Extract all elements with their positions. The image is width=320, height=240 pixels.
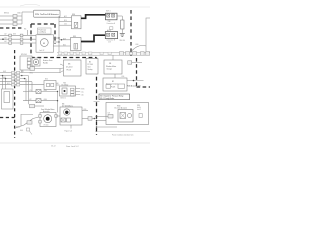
- svg-text:D21: D21: [21, 71, 24, 73]
- svg-text:Link 2: Link 2: [137, 109, 141, 111]
- connector pins group B: [12, 71, 20, 86]
- handle label: [43, 59, 53, 64]
- wire labels K35: [63, 37, 66, 46]
- rear actuator box: [106, 103, 149, 125]
- auth unit: [44, 79, 56, 90]
- inline connector A0: [128, 61, 132, 64]
- small tag box 2: [118, 84, 125, 88]
- svg-text:G11: G11: [7, 83, 10, 85]
- connector pins group A: [9, 34, 23, 44]
- wire crossing boundary 1: [130, 62, 142, 64]
- wire diagonal 2: [14, 125, 24, 129]
- motor M1: [36, 35, 54, 52]
- wire crossing boundary 2: [127, 80, 144, 82]
- wire labels group B: [3, 71, 24, 85]
- svg-text:K06: K06: [136, 44, 139, 46]
- wire group A: [0, 30, 36, 43]
- wire thick battery feed 2: [81, 35, 105, 41]
- wire labels K36: [64, 15, 67, 26]
- svg-text:SW 12: SW 12: [4, 13, 9, 15]
- dc motor unit M5: [60, 83, 76, 100]
- switch S2: [20, 54, 32, 70]
- svg-text:K09 4: K09 4: [106, 11, 110, 13]
- bus inline connectors: [59, 52, 112, 55]
- wire to K36 pins: [59, 18, 72, 26]
- wire M4 pin 2: [82, 118, 92, 120]
- junction: [133, 80, 135, 82]
- junctions riser: [57, 91, 58, 92]
- door lock actuator label box: [38, 28, 52, 34]
- harness boundary dashed left mid: [14, 50, 16, 85]
- wire stub: [21, 114, 33, 116]
- svg-text:Verkey: Verkey: [88, 69, 93, 71]
- svg-text:W30: W30: [30, 73, 33, 75]
- wire module B feed: [114, 74, 116, 78]
- part number box: [34, 10, 61, 17]
- svg-text:G09: G09: [3, 77, 6, 79]
- svg-text:Figure 5-6: Figure 5-6: [65, 131, 72, 133]
- module A window motor driver: [104, 60, 122, 74]
- connector X2: [105, 29, 117, 43]
- wire arc K06: [132, 45, 146, 50]
- svg-text:K096: K096: [81, 88, 85, 90]
- wire labels group A: [4, 33, 16, 43]
- junction: [61, 39, 63, 41]
- wire: [0, 12, 34, 24]
- svg-text:L04: L04: [4, 41, 7, 43]
- wire arc top: [20, 4, 40, 6]
- svg-text:Door Lock 5-2: Door Lock 5-2: [66, 146, 79, 148]
- caption rule: [95, 131, 150, 133]
- wire to ground: [121, 29, 123, 33]
- note box: [99, 94, 130, 100]
- inline connector W4b: [88, 117, 92, 121]
- resistor R1: [121, 20, 124, 29]
- lock actuator row 1: [23, 90, 58, 94]
- svg-text:W30a: W30a: [16, 127, 20, 129]
- wire bus to module A: [112, 55, 114, 60]
- svg-text:L22: L22: [29, 99, 32, 101]
- svg-text:B0/G 12: B0/G 12: [61, 98, 67, 100]
- wire M4 pin 1: [82, 110, 88, 112]
- svg-text:T08: T08: [108, 21, 111, 23]
- door lock actuator label: [39, 28, 47, 33]
- svg-text:W1: W1: [24, 29, 27, 31]
- junction: [2, 38, 4, 40]
- svg-text:B5: 12 body Brake: B5: 12 body Brake: [100, 97, 114, 100]
- wire lower crossing: [97, 126, 118, 128]
- wire boundary to actuator: [97, 116, 109, 118]
- wire to K35 pins: [59, 40, 71, 46]
- svg-text:C0b: C0b: [81, 94, 84, 96]
- box right edge: [146, 18, 152, 52]
- module B steering damper: [103, 78, 127, 91]
- svg-text:PLUS: PLUS: [111, 86, 115, 88]
- svg-text:B16: B16: [18, 13, 21, 15]
- control unit C1: [64, 60, 82, 76]
- door module boundary dashed: [31, 24, 97, 135]
- ground: [120, 34, 125, 37]
- junctions group B: [2, 75, 3, 76]
- svg-text:B2: B2: [112, 81, 114, 83]
- wire M2 left diagonal: [24, 117, 39, 125]
- relay K35: [71, 36, 82, 51]
- control unit C2: [86, 59, 98, 75]
- wire tick crossing boundary: [94, 101, 100, 103]
- svg-text:B14: B14: [64, 20, 67, 22]
- svg-text:W30: W30: [137, 105, 140, 107]
- wire M4 bottom stub: [70, 125, 72, 129]
- relay K36: [72, 14, 82, 29]
- svg-text:Power window and door lock: Power window and door lock: [112, 133, 134, 136]
- inline connector W30: [30, 67, 35, 71]
- svg-text:W4 014: W4 014: [120, 40, 126, 42]
- pin labels M5: [81, 88, 85, 96]
- svg-text:C07: C07: [108, 113, 111, 115]
- svg-text:C0a: C0a: [81, 91, 84, 93]
- junction: [96, 116, 98, 118]
- page bottom rule: [0, 142, 150, 144]
- wire M5 pins: [76, 89, 81, 95]
- wire bus vertical: [58, 16, 60, 53]
- connector X5 pins: [13, 15, 17, 26]
- wire auth out: [56, 84, 60, 86]
- svg-text:W 1204: W 1204: [44, 125, 49, 127]
- svg-text:B02: B02: [63, 45, 66, 47]
- svg-text:W30: W30: [117, 105, 120, 107]
- window motor assembly M2: [39, 108, 58, 127]
- inline connector W30b: [27, 121, 32, 124]
- wire group B: [0, 69, 60, 105]
- svg-text:4 08: 4 08: [108, 42, 111, 44]
- exterior door handle switch: [32, 58, 40, 66]
- wire vertical near dashed corner: [20, 114, 22, 126]
- connector X1: [106, 13, 118, 29]
- harness boundary dashed left low: [0, 85, 15, 138]
- wire W30 row: [28, 68, 60, 70]
- module boundary dashed left: [0, 27, 24, 29]
- wire tail: [30, 131, 33, 135]
- inline connector tail: [27, 128, 30, 131]
- wire to boundary: [92, 118, 97, 120]
- svg-text:G33: G33: [13, 33, 16, 35]
- svg-text:M4: M4: [62, 103, 64, 105]
- wire M1 to bus: [53, 38, 59, 46]
- svg-text:DB: DB: [109, 63, 111, 65]
- svg-text:L21: L21: [29, 90, 32, 92]
- junction: [94, 118, 96, 120]
- lock actuator row 2: [23, 99, 58, 103]
- small tag boxes above note: [106, 85, 111, 89]
- svg-text:G08: G08: [3, 71, 6, 73]
- svg-text:L02: L02: [4, 33, 7, 35]
- svg-text:4094: 4094: [44, 99, 48, 101]
- wire switch drop: [21, 70, 23, 73]
- page top rule: [0, 6, 150, 8]
- wire W30a: [35, 105, 45, 107]
- wire M2 right: [56, 115, 60, 117]
- svg-text:PC 500: PC 500: [88, 64, 93, 66]
- svg-text:W30 Actuator 12V: W30 Actuator 12V: [127, 84, 141, 87]
- wire thick battery feed 1: [81, 15, 106, 18]
- junction: [96, 120, 98, 122]
- wire fan C1: [60, 64, 64, 73]
- wire X1 to resistor: [117, 16, 122, 20]
- svg-text:C05: C05: [64, 24, 67, 26]
- svg-text:K09: K09: [84, 109, 87, 111]
- svg-text:Charge: Charge: [107, 69, 112, 71]
- wire right riser: [57, 92, 59, 113]
- svg-text:56-12: 56-12: [51, 146, 56, 148]
- harness boundary dashed right mid: [137, 58, 151, 87]
- junction: [58, 41, 59, 42]
- svg-text:L03: L03: [4, 37, 7, 39]
- svg-text:M5: M5: [68, 64, 70, 66]
- svg-text:P/N: Tie/Dis-DR Exterior: P/N: Tie/Dis-DR Exterior: [35, 13, 59, 16]
- harness boundary dashed right top: [130, 10, 132, 55]
- svg-text:4094: 4094: [44, 90, 48, 92]
- svg-text:4x4 Fr: 4x4 Fr: [137, 107, 141, 109]
- key cylinder switch assembly: [2, 89, 14, 109]
- svg-text:Lock 02: Lock 02: [39, 50, 44, 52]
- svg-text:B5: B5: [89, 62, 91, 64]
- svg-text:G04: G04: [20, 130, 23, 132]
- motor unit M4: [60, 103, 82, 125]
- svg-text:M5: M5: [64, 83, 66, 85]
- svg-text:DC-Dset: DC-Dset: [66, 66, 73, 69]
- svg-text:M: M: [43, 43, 45, 45]
- bus rail wires: [57, 52, 150, 54]
- wire boundary to actuator 2: [97, 120, 107, 122]
- svg-text:Handle: Handle: [43, 63, 48, 65]
- junction: [96, 126, 98, 128]
- svg-text:K06: K06: [122, 76, 125, 78]
- junction bus: [130, 54, 132, 56]
- inline connector W30a: [30, 104, 35, 108]
